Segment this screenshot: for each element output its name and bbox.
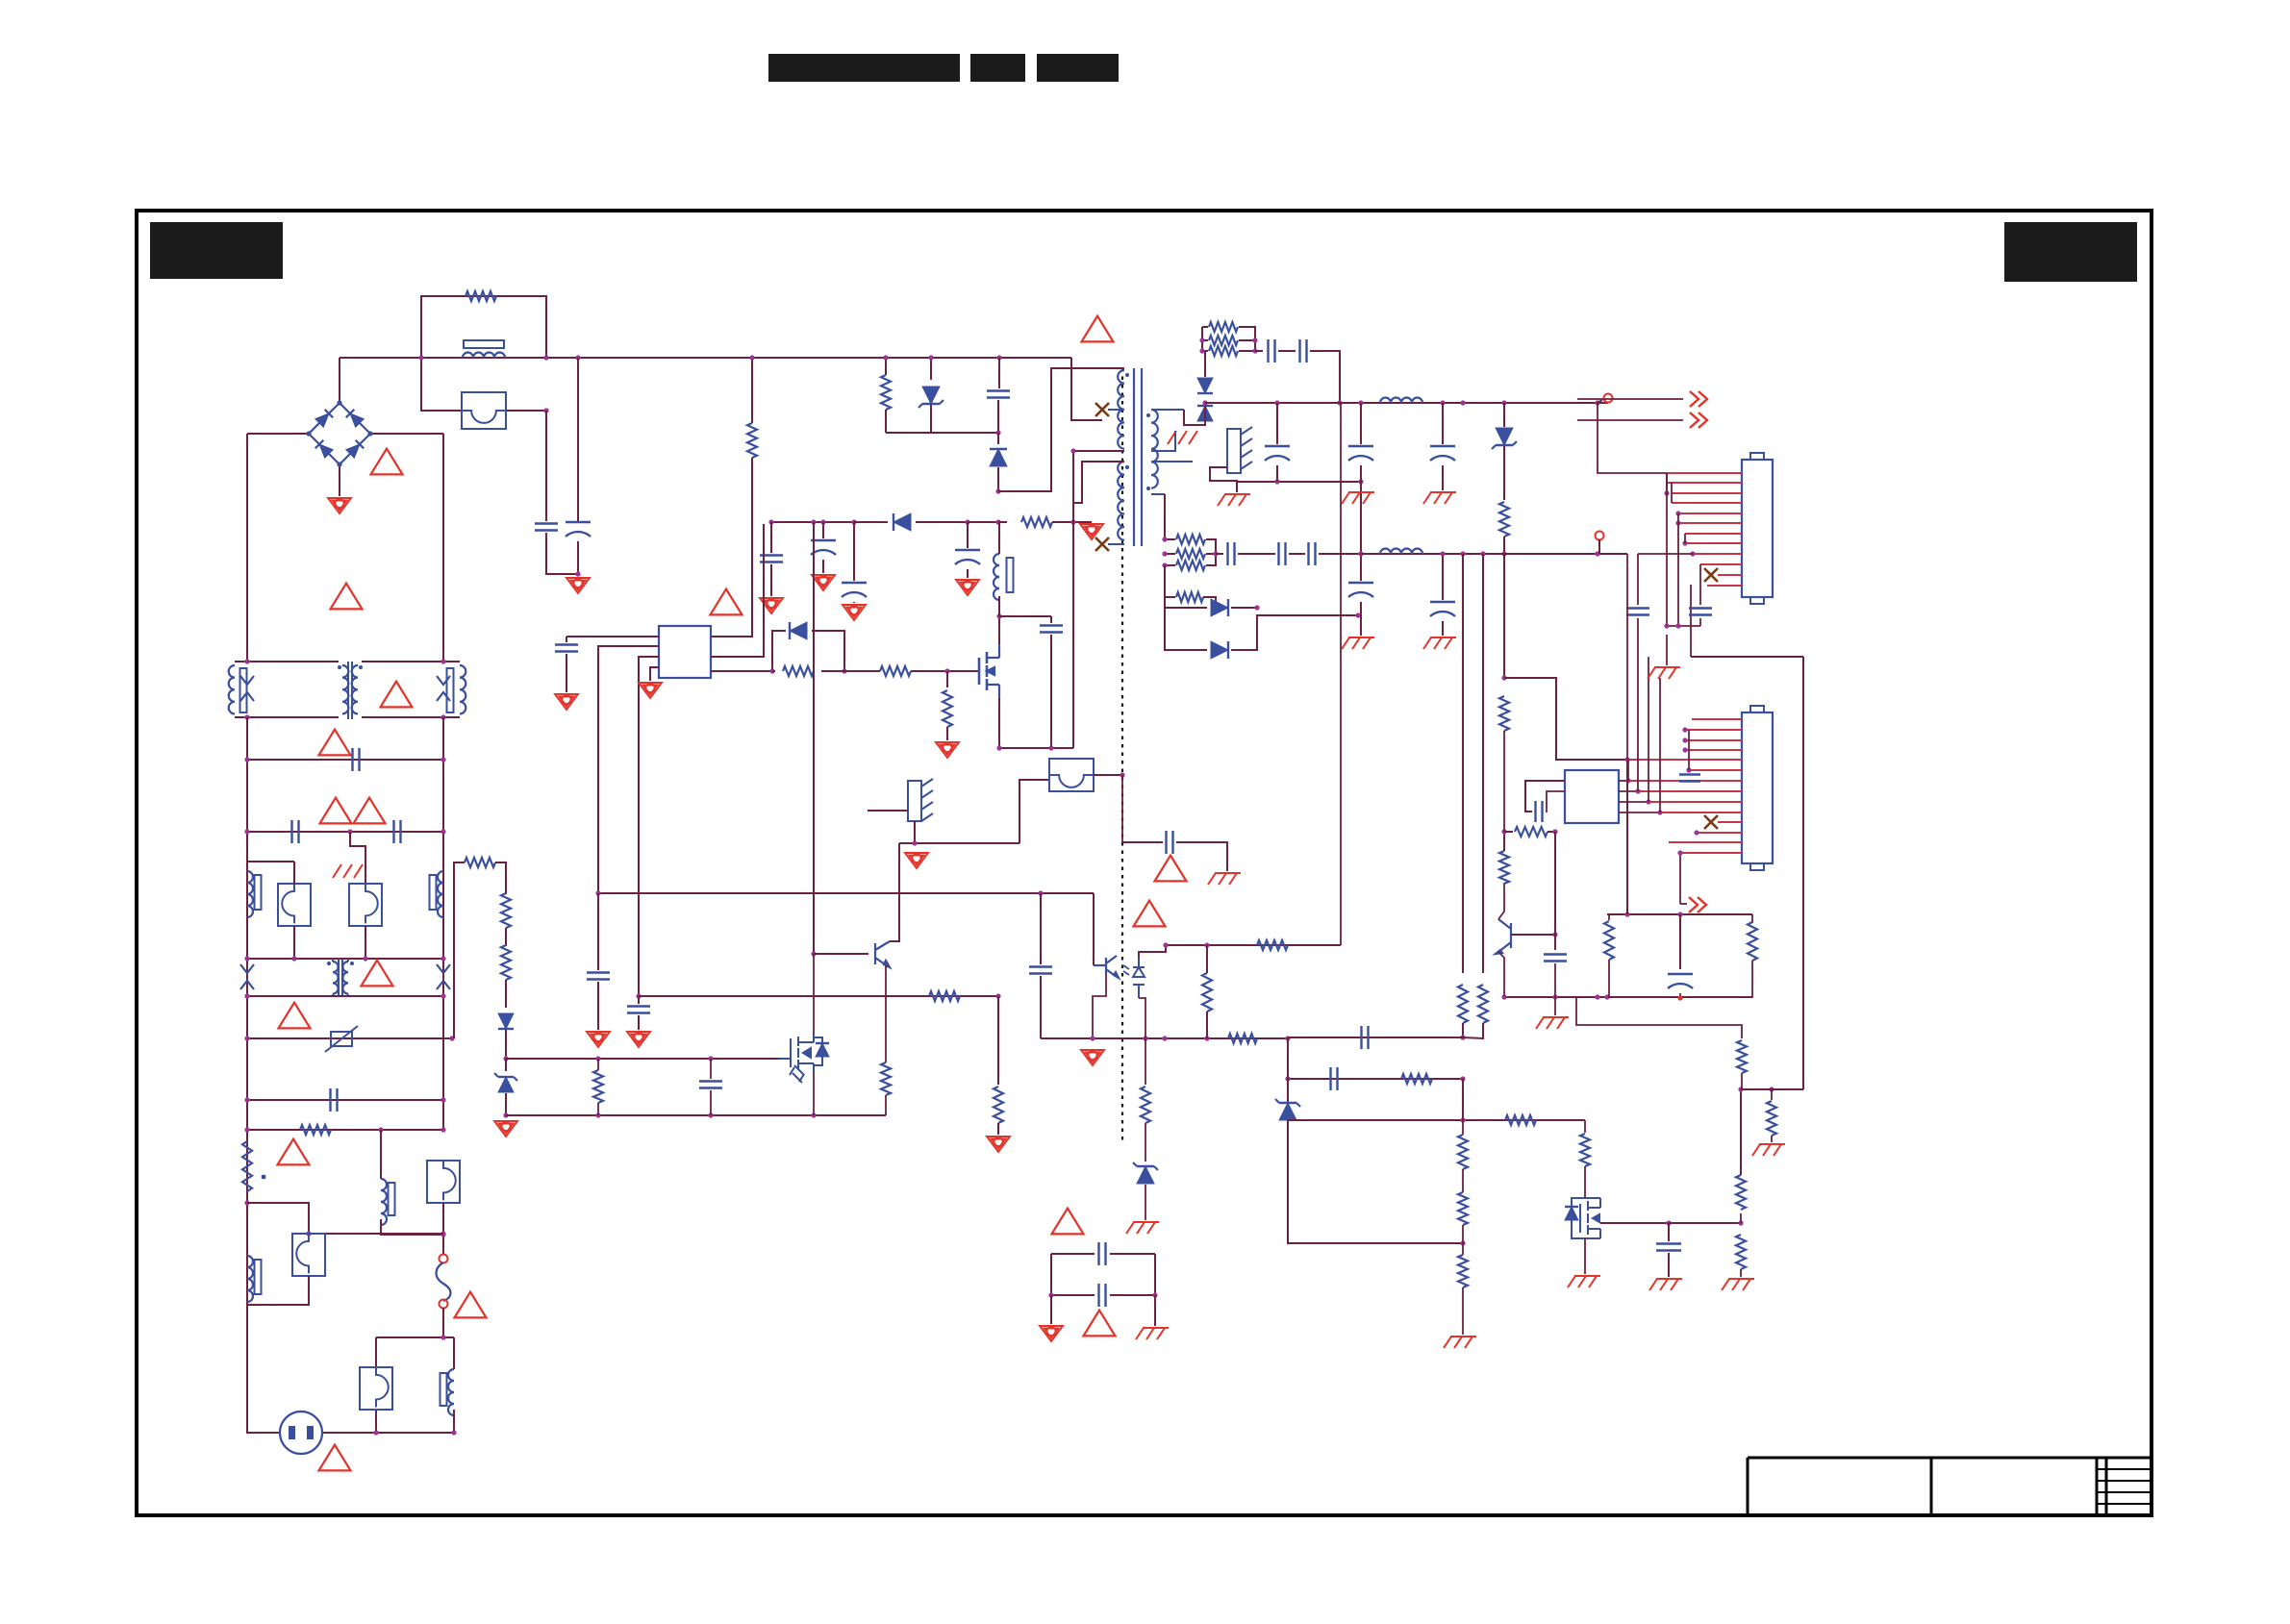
- title redaction block small 1: [970, 54, 1025, 82]
- node box top: [1624, 912, 1629, 916]
- transformer T3 core: [1134, 368, 1142, 546]
- wire fuse branch: [421, 358, 464, 411]
- node y1122: [1285, 1076, 1290, 1081]
- gate loop diode: [772, 631, 786, 671]
- node y501: [1274, 479, 1279, 484]
- ground C1735: [1649, 1279, 1682, 1290]
- ground x1842: [1752, 1144, 1785, 1156]
- wire choke row top-right: [362, 661, 460, 662]
- transformer T3 secondary winding: [1151, 410, 1158, 488]
- wire x1521 col: [1462, 554, 1464, 973]
- capacitor y1122: [1331, 1067, 1338, 1090]
- wire x461 fuse to switch: [442, 1203, 444, 1255]
- wire y651: [1667, 625, 1700, 627]
- capacitor C589: [566, 637, 567, 642]
- node rail-right: [543, 355, 548, 360]
- wire x1758: [1690, 585, 1692, 657]
- wire feed J1 pin1: [1598, 403, 1667, 473]
- ground x664: [627, 1032, 650, 1047]
- capacitor C1735: [1668, 1223, 1670, 1241]
- coupling arrows left: [240, 676, 254, 701]
- node 1735: [1666, 1220, 1671, 1225]
- wire bridge top: [339, 358, 340, 403]
- wire bridge left: [247, 433, 309, 435]
- snubber zener x968: [930, 358, 932, 380]
- wire switch down: [442, 1308, 444, 1337]
- capacitor C1617: [1544, 955, 1567, 962]
- wire y876 cross: [1121, 775, 1123, 842]
- wire heatsink: [1210, 467, 1237, 492]
- wire x1543 col: [1482, 554, 1484, 973]
- wire x782 rail-branch: [751, 358, 753, 423]
- MOSFET Q1 main switch: [979, 652, 987, 690]
- snubber bottom wire: [886, 432, 998, 434]
- choke C coil: [247, 1256, 253, 1302]
- wire J2 col 1756: [1688, 730, 1690, 770]
- heatsink HS2: [908, 781, 921, 821]
- arrow output standby: [1679, 853, 1681, 904]
- resistor R y543: [998, 521, 1007, 523]
- wire x601 low: [577, 541, 579, 576]
- node 1038 y1036: [995, 993, 1000, 998]
- rail y983: [1166, 944, 1341, 946]
- node base: [1552, 932, 1557, 937]
- wire rail y929: [598, 892, 1094, 894]
- snubber resistor bank top: [1201, 327, 1203, 351]
- snubber r2: [1202, 339, 1208, 341]
- AC plug P1: [280, 1412, 322, 1454]
- capacitor C1500b pol: [1442, 554, 1444, 600]
- ground y876: [1208, 873, 1241, 885]
- resistor x1191 lower: [1145, 1038, 1146, 1085]
- fuse F5: [360, 1367, 392, 1410]
- capacitor C1747 pol: [1679, 914, 1681, 969]
- wire x1617: [1554, 832, 1556, 950]
- resistor y1122: [1401, 1074, 1432, 1084]
- interlock switch blade: [437, 1262, 451, 1301]
- wire x622 cap: [597, 893, 599, 970]
- fuse loop left wire: [421, 296, 546, 358]
- ground C1415: [1342, 492, 1374, 504]
- warning triangle y1208: [278, 1139, 310, 1165]
- wire blockD left2: [375, 1411, 377, 1433]
- T2 dots: [327, 962, 331, 965]
- wire Q4 drain out: [1600, 1222, 1669, 1224]
- node y1165: [1460, 1117, 1465, 1122]
- capacitor C x568: [535, 524, 558, 531]
- connector J1 pins: [1667, 472, 1742, 474]
- resistor x1810 up: [1740, 1213, 1742, 1223]
- ground y1080: [1081, 1050, 1104, 1065]
- rail2 caps series: [1216, 553, 1223, 555]
- connector J2 body: [1742, 712, 1773, 863]
- wire sec diode mid: [1204, 403, 1206, 421]
- corner redaction block top-right: [2004, 222, 2137, 282]
- ground heatsink: [1218, 494, 1250, 506]
- wire choke top: [998, 523, 1000, 554]
- choke D coil: [448, 1369, 454, 1415]
- resistor y1165: [1505, 1115, 1536, 1125]
- wire choke row top-left: [235, 661, 339, 662]
- fuse F1: [462, 392, 506, 429]
- wire x1521 bottom: [1462, 1287, 1464, 1335]
- coupling arrows right: [437, 676, 450, 701]
- node x921: [883, 355, 888, 360]
- capacitor C U3: [1536, 801, 1543, 822]
- diode D sec lower: [1204, 412, 1206, 421]
- wire plug rail: [246, 1432, 280, 1434]
- thermal hatch marks: [333, 864, 363, 878]
- wire bridge right: [370, 433, 443, 435]
- transistor Q3 PNP: [1496, 919, 1511, 954]
- capacitor C row y790: [353, 748, 360, 771]
- optocoupler U2: [1094, 956, 1119, 978]
- node row1: [244, 659, 249, 663]
- node 1116 y543: [1070, 519, 1075, 524]
- warning triangle pair 2: [354, 798, 386, 824]
- warning triangle near bridge: [371, 449, 403, 475]
- ground C1415a: [1342, 637, 1374, 649]
- node x1116: [1070, 448, 1075, 453]
- capacitor y1079: [1362, 1026, 1369, 1049]
- Y-cap bridge bottom: [1051, 1254, 1095, 1295]
- wire opto emitter: [1093, 975, 1106, 1038]
- resistor discharge: [300, 1125, 331, 1135]
- node 597: [575, 571, 580, 576]
- wire x526 mid: [505, 928, 507, 946]
- warning triangle sec2: [1134, 901, 1166, 927]
- wire heatsink2: [914, 821, 916, 843]
- J1 harness verticals: [1666, 473, 1668, 493]
- core bar choke D: [440, 1373, 447, 1406]
- rail y1080: [1041, 1037, 1288, 1039]
- terminal output2: [1596, 532, 1604, 540]
- IC U1 pin left4: [650, 667, 659, 681]
- feedback r2: [1165, 553, 1175, 555]
- wire J1 feeds: [1626, 554, 1628, 760]
- wire x1521 mid2: [1462, 1225, 1464, 1255]
- node y865 center: [347, 829, 352, 834]
- resistor y1036: [929, 991, 960, 1001]
- transistor Q2 NPN: [875, 941, 890, 967]
- node fb out: [1355, 612, 1360, 617]
- resistor x526 a: [501, 893, 511, 928]
- sheet border frame: [137, 211, 2152, 1515]
- corner redaction block top-left: [150, 222, 283, 279]
- x mark primary bottom: [1095, 537, 1109, 551]
- wire secondary top tap: [1151, 409, 1184, 411]
- ground y877: [905, 853, 928, 868]
- choke B coil: [381, 1179, 387, 1225]
- node y1133: [1738, 1087, 1743, 1091]
- ground C1006: [956, 580, 979, 595]
- node x846: [811, 951, 816, 956]
- wire left rail x257 seg2: [246, 717, 248, 1432]
- wire heatsink2 left: [868, 810, 908, 812]
- wire EMI blockD top: [376, 1337, 454, 1338]
- rail y1079: [1288, 1037, 1463, 1038]
- transformer T2 right coil: [342, 962, 348, 994]
- caps above J2: [1637, 554, 1639, 605]
- x mark J2 pin: [1704, 815, 1718, 829]
- resistor x1842: [1771, 1089, 1773, 1100]
- wire drain: [998, 616, 1000, 644]
- wire fuse2 pin: [350, 832, 365, 885]
- ground sense: [936, 742, 959, 758]
- wire x1116 primary return: [1072, 451, 1074, 748]
- node y1080: [244, 1036, 249, 1040]
- fuse F4: [427, 1161, 460, 1203]
- MOSFET Q5 standby switch: [791, 1034, 814, 1072]
- resistor x1521 d3: [1458, 1255, 1468, 1287]
- capacitor C802: [770, 522, 772, 553]
- resistor below zener: [1499, 502, 1509, 537]
- wire y1272: [1669, 1222, 1741, 1224]
- wire x1521 low: [1462, 1079, 1464, 1120]
- node 1038y543: [995, 519, 1000, 524]
- node C1747 bot: [1677, 995, 1682, 1000]
- wire y877: [899, 842, 1019, 844]
- wire x1564 top: [1503, 554, 1505, 678]
- inductor L output2: [1380, 549, 1422, 554]
- resistor x921 standby: [881, 1062, 891, 1095]
- resistor R fuse-parallel: [466, 291, 496, 301]
- fuse F3 thermal: [349, 884, 382, 926]
- wire x782 to IC: [711, 458, 752, 637]
- clamp diode D x1038: [997, 433, 999, 444]
- resistor x1564 mid: [1499, 851, 1509, 884]
- wire opto collector: [1093, 893, 1095, 965]
- node gate sense: [944, 668, 949, 673]
- wire x601 to cap: [577, 358, 579, 522]
- node snubber: [1199, 337, 1204, 342]
- red arrow out2: [1690, 412, 1707, 428]
- resistor x1648: [1584, 1120, 1586, 1133]
- core bar choke L2: [240, 668, 247, 712]
- resistor x1673: [1608, 914, 1610, 920]
- wire Q3 emitter: [1498, 952, 1504, 996]
- wire rail y1036: [639, 995, 998, 997]
- wire x1039 rail to snubber: [998, 358, 1000, 388]
- wire y1133: [1741, 1088, 1803, 1090]
- T1 polarity dots: [338, 665, 341, 669]
- ground C589: [555, 694, 578, 710]
- capacitor C1500 pol: [1442, 403, 1444, 444]
- node 1284: [440, 1232, 445, 1237]
- wire sec mid taps: [1151, 431, 1175, 451]
- ground x1038: [987, 1137, 1010, 1152]
- snubber caps: [1255, 350, 1263, 352]
- node bus: [1501, 994, 1506, 999]
- node y543: [768, 519, 773, 524]
- node standby rail2: [503, 1112, 508, 1117]
- title block table: [1748, 1458, 2152, 1515]
- wire left rail x257: [246, 434, 248, 662]
- wire rail y997: [247, 958, 443, 960]
- ground C802: [760, 598, 783, 613]
- transformer T2 core: [339, 959, 342, 997]
- wire Q3 collector: [1498, 883, 1504, 919]
- capacitor C888 pol: [853, 522, 855, 581]
- node y1160: [595, 1112, 600, 1117]
- transformer T1 left winding: [342, 665, 348, 713]
- wire x472 sense: [454, 862, 465, 1038]
- wire rail y1080: [247, 1037, 452, 1039]
- node x1521 1293: [1460, 1240, 1465, 1245]
- resistor x1810 down: [1736, 1235, 1746, 1269]
- wire y683: [1691, 656, 1803, 658]
- resistor x1521: [1458, 985, 1468, 1023]
- wire fb low r7: [1165, 565, 1175, 597]
- Q4 source ground: [1584, 1238, 1586, 1274]
- capacitor CY1: [292, 820, 299, 843]
- resistor x1822: [1751, 914, 1753, 923]
- U3 left pin2: [1546, 791, 1565, 812]
- T3 polarity dots: [1125, 373, 1129, 377]
- core bar right y908: [430, 875, 437, 910]
- gate resistor 2: [880, 666, 911, 676]
- node rail 1039: [996, 355, 1001, 360]
- node rail-x601: [575, 355, 580, 360]
- ground x601: [566, 578, 590, 593]
- choke coil on left rail: [247, 871, 253, 917]
- choke L2 left coil: [229, 665, 235, 713]
- node blockD: [440, 1335, 445, 1339]
- wire choke row bottom-left: [235, 716, 339, 718]
- wire x1116 tap: [1073, 450, 1124, 452]
- wire arrows feed: [1577, 398, 1683, 400]
- resistor x1255 vert: [1202, 973, 1212, 1012]
- node source rail: [996, 745, 1001, 750]
- warning triangle below row1: [319, 730, 351, 756]
- wire right rail x461: [442, 434, 444, 662]
- wire x846 standby feed: [813, 522, 815, 954]
- ground IC pin: [639, 683, 662, 698]
- node x664: [636, 993, 641, 998]
- inductor drain choke: [994, 554, 999, 600]
- Y-cap bridge top: [1050, 1245, 1052, 1254]
- IC U1 pin right3: [711, 670, 772, 672]
- node x1564 865: [1501, 829, 1506, 834]
- J2 pin dots: [1682, 727, 1687, 732]
- capacitor C1006 pol: [967, 522, 969, 548]
- inductor L1 on rail: [463, 353, 505, 358]
- wire diode to rail: [505, 1030, 507, 1059]
- connector J1 body: [1742, 460, 1773, 597]
- IC U1 pin left2: [598, 646, 659, 893]
- node rail1: [1274, 400, 1279, 405]
- wire r7 right: [1203, 597, 1216, 608]
- output rail1 y419: [1205, 402, 1608, 404]
- wire bridge bottom: [339, 464, 340, 496]
- secondary bottom tap: [1151, 493, 1165, 495]
- resistor x622 standby: [597, 1059, 599, 1070]
- node y983: [1163, 942, 1168, 947]
- J1 pin junction dots: [1664, 490, 1669, 495]
- wire x1339: [1287, 1037, 1289, 1102]
- capacitor C739: [710, 1059, 712, 1079]
- wire rail y790: [247, 759, 443, 761]
- wire y1283 link: [309, 1233, 443, 1235]
- node rail2 1415: [1358, 551, 1363, 556]
- node bridge top: [337, 400, 341, 405]
- node 1251: [244, 1200, 249, 1205]
- node 1038 y511: [995, 488, 1000, 493]
- capacitor C1082: [1040, 893, 1042, 964]
- resistor y865: [1504, 831, 1513, 833]
- node x1692: [1624, 757, 1629, 762]
- warning triangle mid: [711, 589, 742, 615]
- node y877: [912, 840, 917, 845]
- terminal output1: [1604, 394, 1613, 403]
- resistor x1038 lower: [997, 996, 999, 1085]
- choke coil on right rail: [438, 871, 443, 917]
- wire main top rail: [340, 357, 1071, 359]
- ground ycap left: [1040, 1326, 1063, 1341]
- node y1101: [595, 1056, 600, 1061]
- resistor y983: [1257, 940, 1288, 950]
- fuse F2: [278, 884, 311, 926]
- ground bridge: [328, 498, 351, 513]
- wire Q2 emitter: [886, 966, 888, 1062]
- standby rail gate y1101: [506, 1058, 779, 1060]
- zener ZD standby: [505, 1059, 507, 1071]
- zener ZD x1191: [1137, 1166, 1154, 1184]
- capacitor CX y1144: [331, 1088, 338, 1112]
- ground C856: [812, 575, 835, 590]
- x mark J1 pin: [1704, 568, 1718, 582]
- capacitor C1328 pol: [1276, 403, 1278, 444]
- capacitor C1415 pol: [1360, 403, 1362, 444]
- Q5 gate wire: [779, 1058, 791, 1060]
- sense resistor: [946, 671, 948, 687]
- wire aux bottom tap: [1108, 543, 1124, 545]
- title redaction block large: [768, 54, 960, 82]
- node fb diode: [1254, 605, 1259, 610]
- transformer T3 primary winding lower: [1118, 462, 1124, 540]
- wire choke B: [380, 1130, 382, 1179]
- wire fuse F2 pins: [293, 862, 295, 885]
- snubber r3: [1202, 350, 1208, 352]
- warning triangle pair 1: [320, 798, 352, 824]
- wire blockD right: [453, 1337, 455, 1369]
- zener rail1: [1503, 403, 1505, 427]
- transformer T1 right winding: [352, 665, 358, 713]
- core bar left y908: [255, 875, 262, 910]
- bridge rectifier BR1: [309, 403, 370, 464]
- wire y501 net: [1237, 482, 1361, 581]
- wire rail y543: [771, 521, 854, 523]
- U3 right pins: [1619, 780, 1628, 782]
- wire aux tap: [1073, 462, 1124, 503]
- Q4 body diode: [1565, 1207, 1578, 1220]
- node 1283: [306, 1231, 311, 1236]
- ground C1500b: [1423, 637, 1456, 649]
- node dashed 806: [1120, 772, 1124, 777]
- resistor x526 b: [501, 945, 511, 980]
- IC U1 PWM controller: [659, 626, 711, 678]
- core bar choke B: [389, 1183, 395, 1215]
- wire x664 cap: [638, 996, 640, 1004]
- ground Q4: [1568, 1276, 1600, 1287]
- wire x1564 up: [1503, 832, 1505, 851]
- core bar drain choke: [1007, 558, 1014, 592]
- IC U1 pin left1: [566, 636, 659, 637]
- wire x1394 feedback sense: [1340, 403, 1342, 945]
- wire fuse sec: [1019, 780, 1050, 843]
- resistor x1543: [1478, 985, 1488, 1023]
- node y997: [244, 956, 249, 961]
